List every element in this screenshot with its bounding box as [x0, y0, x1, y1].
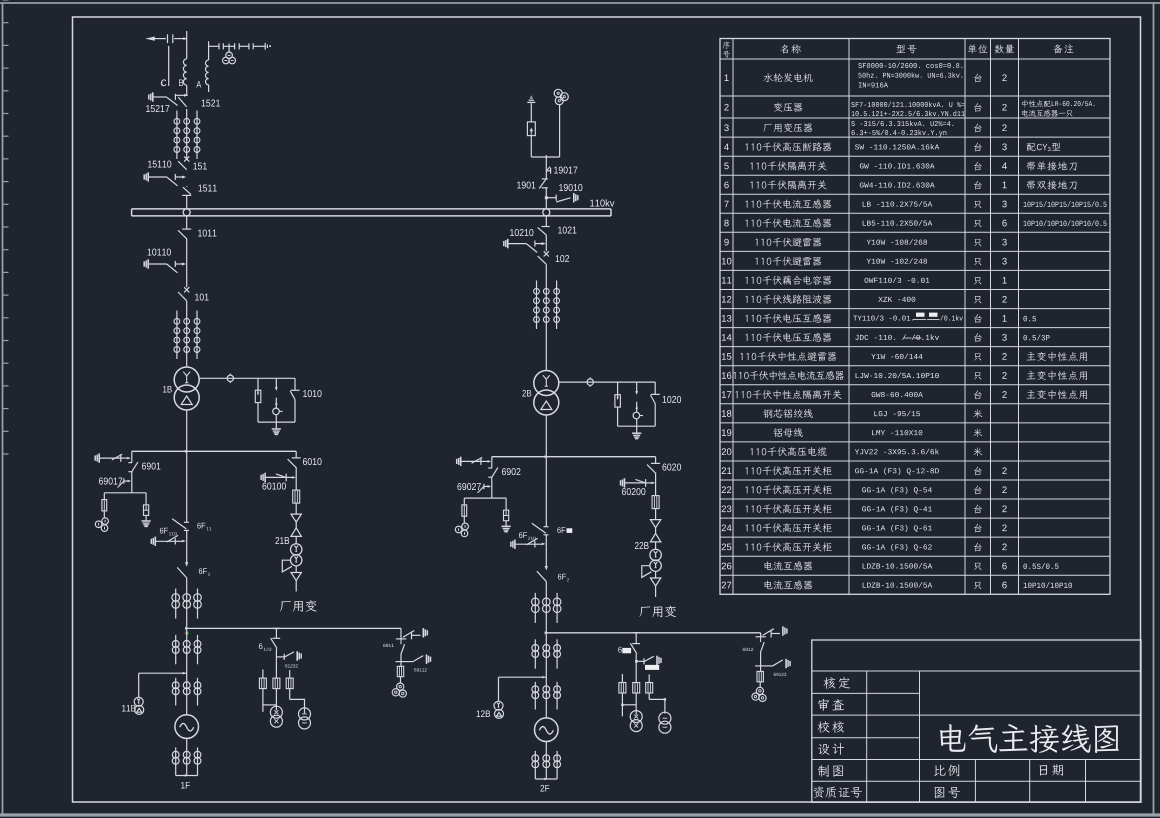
grounding switch 61232: [276, 656, 284, 658]
PT fuse: [103, 493, 105, 500]
title block row lines: [812, 692, 920, 694]
title block outer box: [812, 640, 1141, 802]
wire 6kV bus to 6F21: [545, 457, 547, 527]
table column lines: [732, 39, 734, 595]
neutral earth: [275, 422, 277, 429]
grounding switch on 6901 branch: [98, 453, 100, 462]
fuse 6912: [760, 666, 762, 672]
6kV feeder bus unit1: [132, 450, 296, 452]
grounding switch 15110: [147, 172, 149, 181]
wire: [655, 571, 657, 578]
voltage transformer PT1 unit2: [630, 711, 642, 723]
excitation transformer 11B: [134, 697, 143, 706]
house transformer 21B: [291, 544, 302, 555]
disconnect switch 1011: [186, 216, 188, 229]
row1 model text: [858, 63, 862, 68]
spark gap triangles unit2: [650, 520, 660, 528]
PT branch horizontal: [104, 492, 146, 494]
neutral arrester branch: [257, 378, 259, 393]
fuse 6020: [652, 496, 659, 509]
bus node unit1: [183, 209, 190, 216]
grounding switch 10210: [507, 239, 509, 248]
grounding switch 19010: [545, 196, 548, 199]
house transformer branch 6010 corner: [295, 451, 297, 458]
left ruler ticks: [3, 0, 9, 1]
spark gap down unit2: [650, 578, 660, 586]
CT doublet below bus unit2: [534, 639, 536, 668]
feeder 6912 corner: [760, 633, 762, 637]
title block vertical lines: [866, 671, 868, 802]
outer border top line: [0, 2, 1160, 4]
PT 6911 three-winding: [397, 683, 404, 690]
grounding switch 60100: [264, 473, 266, 482]
table body rows: [725, 74, 729, 81]
CT doublet stack above 6kV gen bus unit1: [175, 589, 177, 619]
arrester on 6902 branch: [505, 498, 507, 510]
breaker 102: [544, 251, 549, 256]
grounding switch 10110: [147, 259, 149, 268]
surge arrester with counter top-left: [530, 136, 532, 157]
CT doublet stack above 6kV gen bus unit2: [534, 593, 536, 623]
neutral disconnect 1020: [654, 382, 656, 394]
earth on 6902 branch: [502, 525, 511, 527]
feeder connector wires unit2: [621, 693, 623, 716]
PT branch 6902 corner: [491, 457, 493, 468]
neutral gap branch: [275, 378, 277, 387]
wire: [186, 738, 188, 775]
row14 fraction marks: [904, 337, 912, 339]
generator 2F: [535, 718, 559, 742]
outer border bottom line: [0, 813, 1160, 816]
disconnect 6020: [651, 462, 660, 464]
coupling capacitor chain to PT: [209, 45, 219, 47]
main transformer 1B: [174, 367, 199, 392]
6kV generator bus unit2: [546, 632, 760, 634]
neutral CT unit2: [587, 379, 593, 385]
disconnect 6010: [292, 457, 301, 459]
grounding switch 6F110: [154, 537, 156, 546]
spark gap down: [291, 573, 301, 581]
outer border right line: [1153, 3, 1155, 815]
neutral gap branch unit2: [636, 382, 638, 392]
drawing title text: [940, 724, 966, 752]
disconnect 6912: [761, 642, 765, 652]
disconnect switch 1511: [186, 185, 188, 188]
disconnect switch 1021: [545, 216, 547, 227]
110kV busbar: [132, 208, 611, 210]
excitation transformer branch 12B: [499, 676, 547, 678]
label changyongbian unit1: [280, 601, 291, 611]
grounding switch 19017: [546, 170, 550, 172]
CT doublet below bus unit1: [175, 635, 177, 664]
voltage transformer PT2 unit2: [659, 712, 671, 724]
generator 1F: [175, 715, 199, 739]
PT branch 6901 corner: [131, 451, 133, 462]
excitation transformer branch 11B: [139, 672, 187, 674]
breaker 6F1: [185, 562, 188, 567]
fuse 6911: [400, 662, 402, 667]
generator terminal connector unit2: [535, 778, 557, 780]
feeder 6911 corner: [400, 628, 402, 639]
table outer box: [720, 39, 1110, 595]
grounding switch on 6902 branch: [460, 457, 462, 466]
bus PT three-winding unit2: [559, 104, 561, 157]
table header row: [723, 42, 730, 49]
wire: [186, 530, 188, 563]
wire: [186, 578, 188, 589]
neutral bottom wire unit2: [618, 425, 656, 427]
wire: [295, 536, 297, 544]
row13 model text: [853, 316, 857, 321]
wire: [545, 235, 547, 251]
feeder fuses: [262, 670, 264, 679]
CT doublet below generator unit1: [175, 747, 177, 775]
voltage transformer PT1: [270, 706, 282, 718]
wire: [545, 535, 547, 567]
outer border left line: [2, 3, 4, 815]
disconnect 6901: [128, 462, 132, 464]
breaker 6F2: [545, 566, 548, 571]
transformer neutral wire: [199, 377, 295, 379]
breaker 101: [184, 287, 189, 292]
title block row line under top band: [812, 670, 1141, 672]
wire: [545, 581, 547, 593]
generator terminal connector: [176, 775, 198, 777]
fuse 6010: [293, 490, 300, 503]
bus label 110kv: [590, 200, 594, 207]
wire: [295, 467, 297, 490]
6kV feeder bus unit2: [492, 456, 656, 458]
arrester line terminal cap: [527, 101, 535, 103]
phase A wave trap: [208, 41, 210, 60]
grounding switch 69123: [766, 665, 772, 667]
phase C conductor: [168, 46, 170, 86]
neutral bottom wire: [258, 421, 295, 423]
feeder connector wires: [262, 689, 264, 712]
current transformers 151 CT stack: [176, 111, 178, 160]
title block labels: [824, 677, 836, 688]
wire: [295, 566, 297, 573]
PT 6912 three-winding: [756, 687, 763, 694]
wire: [186, 238, 188, 287]
neutral earth unit2: [636, 426, 638, 433]
incoming 110kV line arrow: [152, 38, 166, 40]
line PT three-winding: [228, 44, 230, 53]
neutral arrester branch unit2: [617, 382, 619, 398]
PT three-winding 6902: [462, 523, 469, 530]
coupling capacitor in line: [167, 34, 169, 43]
row3 model text: [851, 121, 855, 126]
grounding switch above 6912: [763, 629, 774, 636]
grounding switch 15217: [152, 92, 154, 101]
wire to transformer 2B: [545, 329, 547, 371]
wire: [491, 477, 493, 498]
grounding switch 69112: [407, 661, 413, 663]
label changyongbian unit2: [639, 606, 650, 616]
wire transformer 1B to 6kV bus: [186, 410, 188, 451]
wire: [545, 593, 547, 633]
wire 6kV bus to 6F11: [186, 451, 188, 522]
disconnect switch 1901: [542, 178, 548, 180]
bus node unit2: [543, 209, 550, 216]
6kV generator bus unit1: [187, 627, 401, 629]
breaker 151: [184, 156, 189, 161]
wire: [655, 473, 657, 496]
main transformer 2B: [534, 371, 559, 396]
disconnect 6911: [401, 644, 405, 654]
transformer 2B neutral wire: [559, 381, 655, 383]
CT doublet generator side unit2: [534, 682, 536, 710]
CT doublet below generator unit2: [534, 751, 536, 779]
grounding switch 6F210: [514, 540, 516, 549]
grounding switch 60200: [624, 478, 626, 487]
grounding switch 69017: [123, 478, 125, 483]
excitation transformer 12B: [494, 701, 503, 710]
current transformers 101 CT stack: [186, 301, 188, 309]
junction node line PT / arrester: [531, 156, 559, 158]
table row lines: [720, 58, 1110, 60]
wire: [131, 472, 133, 493]
row13 fraction marks: [916, 313, 925, 317]
feeder fuses unit2: [621, 674, 623, 683]
grounding switch above 6911: [403, 631, 414, 638]
wire unit2 riser: [545, 157, 547, 171]
disconnect 6123: [272, 637, 280, 639]
disconnect switch 1521: [176, 94, 188, 96]
neutral disconnect 1010: [294, 378, 296, 390]
spark gap triangles: [291, 514, 301, 522]
cad grip artifact: [185, 632, 188, 635]
disconnect 6223: [632, 643, 640, 645]
PT fuse unit2: [463, 498, 465, 505]
wire transformer 2B to 6kV bus: [545, 415, 547, 457]
wire: [186, 589, 188, 629]
wire: [545, 742, 547, 780]
disconnect 6F11: [184, 521, 189, 523]
row2 model text: [851, 102, 854, 107]
PT three-winding 6901: [102, 518, 109, 525]
earth on 6901 branch: [142, 520, 151, 522]
row2 remark text: [1022, 100, 1028, 107]
PT branch horizontal unit2: [464, 497, 506, 499]
wire: [655, 542, 657, 549]
CT doublet generator side unit1: [175, 678, 177, 706]
phase B wave trap: [186, 31, 188, 59]
current transformers 102 CT stack: [545, 264, 547, 279]
disconnect 6F21: [544, 526, 549, 528]
wire to transformer 1B: [186, 359, 188, 367]
feeder 6223 junction: [633, 632, 640, 634]
grounding switch feeder unit2: [635, 660, 638, 663]
voltage transformer PT2: [299, 708, 311, 720]
house transformer 22B: [650, 549, 661, 560]
grounding switch 69027: [483, 484, 485, 489]
disconnect 6902: [488, 467, 492, 469]
arrester on 6901 branch: [145, 493, 147, 505]
house transformer branch 6020 corner: [655, 457, 657, 464]
neutral CT: [227, 375, 233, 381]
phase labels C B A: [162, 79, 166, 86]
feeder 6123 junction: [273, 627, 280, 629]
